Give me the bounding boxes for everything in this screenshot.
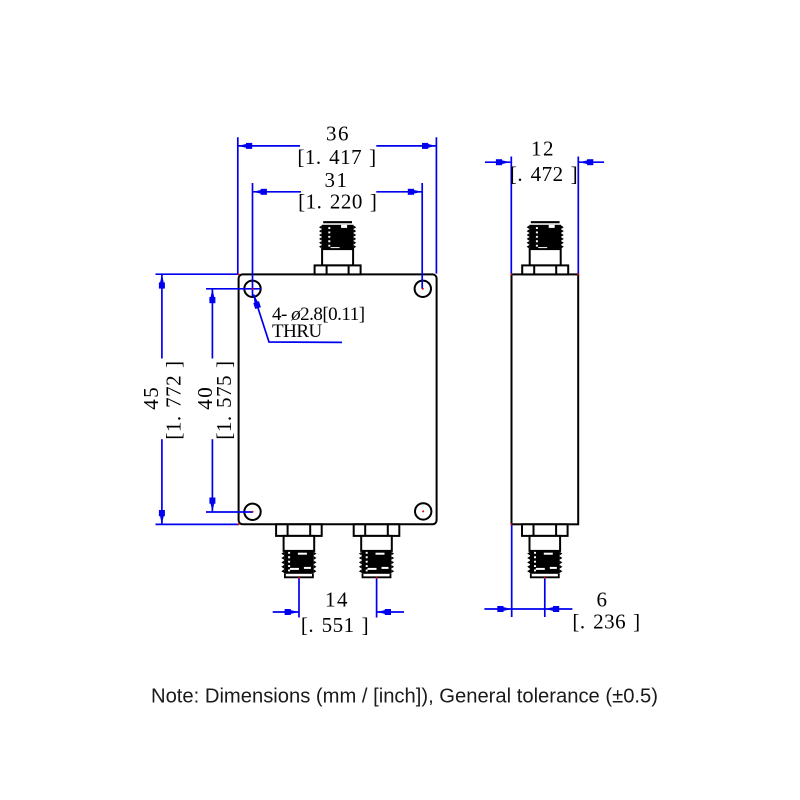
svg-text:6: 6: [597, 587, 609, 611]
svg-text:36: 36: [326, 121, 350, 145]
dimension 36 [1.417] overall width: [238, 121, 437, 273]
mounting hole bottom-right: [415, 503, 431, 519]
mounting hole top-right: [415, 281, 431, 297]
dimension 12 [.472] side width: [485, 137, 604, 274]
SMA output connector 1 (front view, bottom-left): [276, 524, 322, 577]
SMA input connector (front view, top): [315, 222, 361, 274]
dimension 31 [1.220] hole spacing horizontal: [253, 168, 423, 297]
svg-text:14: 14: [325, 588, 349, 612]
SMA output connector 2 (front view, bottom-right): [354, 524, 400, 577]
svg-text:45: 45: [139, 386, 163, 410]
dimension 40 [1.575] hole spacing vertical: [193, 289, 261, 512]
front view enclosure body: [239, 274, 437, 524]
dimension 6 [.236] connector offset: [484, 524, 640, 633]
svg-text:31: 31: [325, 168, 349, 192]
dimension 45 [1.772] overall height: [139, 274, 239, 524]
svg-text:12: 12: [531, 137, 555, 161]
mounting hole top-left: [244, 281, 260, 297]
dimension 14 [.551] output connector spacing: [273, 579, 404, 638]
SMA output connector (side view, bottom): [522, 524, 568, 577]
center point markers (red): [238, 273, 580, 578]
svg-text:THRU: THRU: [272, 321, 323, 342]
svg-text:Note: Dimensions (mm / [inch]): Note: Dimensions (mm / [inch]), General …: [151, 686, 658, 708]
mounting hole bottom-left: [244, 504, 260, 520]
SMA input connector (side view, top): [522, 222, 568, 274]
leader line for hole callout: [253, 294, 342, 342]
side view enclosure body: [512, 274, 579, 524]
